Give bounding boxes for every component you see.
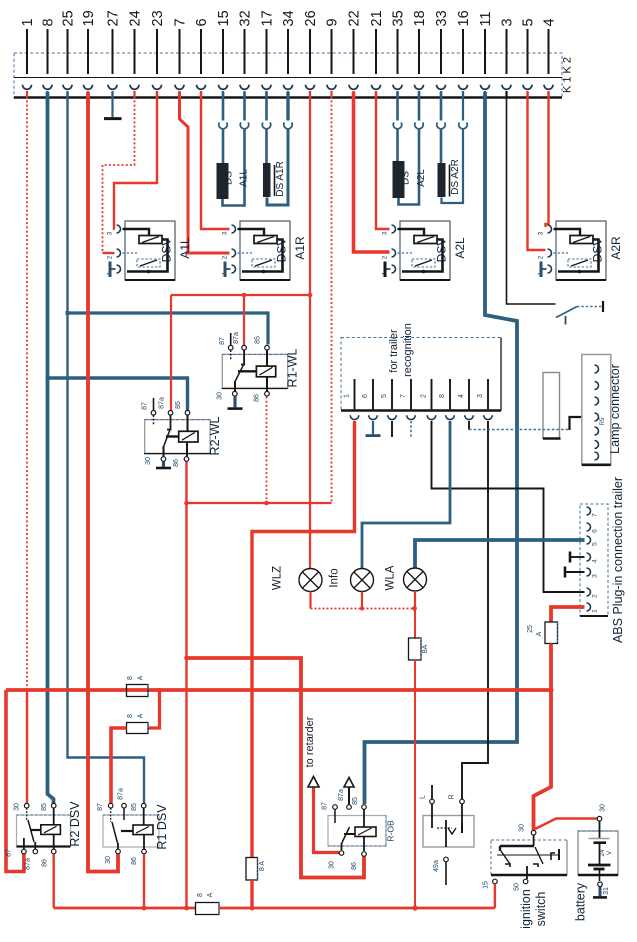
sensor DS A1R: [263, 161, 286, 197]
svg-text:WLZ: WLZ: [272, 566, 284, 590]
svg-text:8: 8: [439, 394, 446, 398]
svg-text:Info: Info: [329, 568, 341, 587]
svg-text:L: L: [420, 795, 427, 799]
wire pin32 loop to sensor DS A1L return: [223, 92, 249, 206]
strip socket pin 3: [502, 85, 511, 99]
svg-text:5: 5: [592, 542, 599, 546]
svg-text:32: 32: [238, 10, 254, 26]
svg-text:85: 85: [352, 797, 359, 805]
wire pin1 to relay R2 DSV pin30 (dotted then solid): [26, 92, 28, 690]
strip socket pin 21: [372, 85, 381, 99]
svg-text:85: 85: [131, 803, 138, 811]
svg-text:K 1 K 2: K 1 K 2: [562, 57, 574, 93]
svg-text:battery: battery: [574, 882, 588, 921]
svg-text:8A: 8A: [422, 644, 429, 653]
stub ABS pin3 terminator: [565, 567, 585, 578]
svg-text:5: 5: [381, 394, 388, 398]
svg-text:2: 2: [382, 255, 389, 259]
fuse 25A: [527, 622, 558, 644]
svg-text:3: 3: [500, 18, 516, 26]
svg-text:33: 33: [434, 10, 450, 26]
lamp WLZ: [272, 566, 323, 592]
strip socket pin 33: [437, 85, 446, 99]
wire to R1-WL pin87a: [243, 295, 245, 345]
wire pin15 to sensor DS A1L: [219, 92, 227, 163]
strip socket pin 27: [108, 85, 117, 99]
relay R-OB: [322, 789, 396, 870]
strip socket pin 22: [349, 85, 358, 99]
wire branch pin8 line to R2-WL pin85: [48, 378, 188, 411]
svg-text:25: 25: [61, 10, 77, 26]
solenoid valve block DSV A2L: [382, 221, 451, 280]
svg-text:A1L: A1L: [178, 237, 192, 259]
wire pin19 to relay R1 DSV pin30 (thick red): [88, 92, 118, 872]
svg-text:R2-WL: R2-WL: [208, 417, 222, 456]
svg-text:R1-WL: R1-WL: [286, 349, 300, 388]
fuse 8A R1 DSV branch: [127, 713, 149, 733]
wire trailer pin4 to resistor (dashed): [468, 421, 470, 430]
svg-text:A: A: [536, 631, 543, 636]
svg-text:3: 3: [477, 394, 484, 398]
wire bus left end to R2 DSV pin87: [6, 690, 24, 872]
strip socket pin 32: [240, 85, 249, 99]
svg-text:3: 3: [107, 231, 114, 235]
ground battery pin31: [593, 887, 607, 897]
svg-text:7: 7: [592, 513, 599, 517]
svg-text:87a: 87a: [159, 397, 166, 409]
relay R2 DSV: [6, 801, 83, 870]
svg-text:4: 4: [458, 394, 465, 398]
svg-text:85: 85: [255, 336, 262, 344]
svg-text:27: 27: [106, 10, 122, 26]
svg-text:86: 86: [173, 459, 180, 467]
svg-text:86: 86: [42, 859, 49, 867]
wire R1-WL pin86 (dotted): [266, 397, 268, 504]
svg-text:16: 16: [456, 10, 472, 26]
wire pin35 to sensor DS A2L: [393, 92, 401, 161]
wire net 87a horizontal: [171, 294, 310, 296]
svg-text:DS A1R: DS A1R: [275, 161, 286, 197]
wire trailer pin3 to flasher R terminal: [462, 421, 488, 799]
svg-text:ABS Plug-in connection trailer: ABS Plug-in connection trailer: [611, 477, 625, 643]
wire R2-WL pin86 down to bottom bus: [185, 462, 187, 909]
strip pin 18 lead: [412, 10, 428, 74]
svg-text:34: 34: [281, 10, 297, 26]
svg-text:85: 85: [41, 803, 48, 811]
connector strip K1 K2: [14, 53, 562, 98]
wire pin18 loop to sensor DS A2L return: [399, 92, 424, 205]
stop light switch with ground: [556, 301, 603, 325]
connector ABS plug-in connection trailer: [580, 477, 625, 643]
wire ignition pin15 to bottom bus: [494, 884, 496, 908]
svg-text:8: 8: [197, 893, 204, 897]
svg-text:3: 3: [222, 231, 229, 235]
svg-text:A: A: [207, 892, 214, 897]
wire R2 DSV pin86 to bottom bus: [53, 854, 55, 908]
strip socket pin 15: [219, 85, 228, 99]
svg-text:87a: 87a: [118, 788, 125, 800]
wire to R2-WL pin87a: [170, 295, 172, 411]
svg-text:1: 1: [592, 609, 599, 613]
connector block for trailer recognition: [341, 323, 501, 420]
svg-text:15: 15: [216, 10, 232, 26]
stub ABS pin4 terminator: [570, 552, 585, 563]
wire pin6 to DSV A1R socket3: [201, 92, 230, 229]
wire pin4 to DSV A2R socket3: [546, 92, 549, 227]
wire pin25 to relay R1 DSV pin85: [68, 92, 145, 804]
strip socket pin 25: [63, 85, 72, 99]
wire pin22 to DSV A2L socket2 (thick): [354, 92, 390, 252]
strip socket pin 5: [523, 85, 532, 99]
strip socket pin 34: [284, 85, 293, 99]
svg-text:15: 15: [483, 881, 490, 889]
ground R1-WL pin30: [228, 396, 243, 409]
supply bus horizontal: [6, 688, 551, 692]
ground R2-WL pin30: [156, 462, 171, 469]
strip pin 33 lead: [434, 10, 450, 74]
wire supply down to ignition switch pin30 and battery: [534, 690, 552, 830]
svg-text:1: 1: [20, 18, 36, 26]
strip pin 22 lead: [347, 10, 363, 74]
sensor DS A1L: [217, 163, 250, 199]
strip pin 24 lead: [128, 10, 144, 74]
svg-text:87a: 87a: [25, 858, 32, 870]
svg-text:85: 85: [175, 401, 182, 409]
strip socket pin 9: [327, 85, 336, 99]
svg-text:8: 8: [41, 18, 57, 26]
strip pin 27 lead: [106, 10, 122, 74]
svg-text:ignition: ignition: [519, 889, 533, 929]
arrow to retarder: [304, 716, 319, 787]
svg-text:7: 7: [400, 394, 407, 398]
wire trailer pin4 to resistor (dashed): [469, 429, 570, 431]
stub trailer pin7 (dashed): [410, 421, 412, 438]
svg-text:2: 2: [107, 255, 114, 259]
strip pin 6 lead: [194, 18, 210, 74]
strip socket pin 24: [130, 85, 139, 99]
svg-text:23: 23: [150, 10, 166, 26]
relay R1-WL: [217, 332, 300, 402]
solenoid valve block DSV A1L: [107, 221, 176, 280]
wire branch pin25 line to R1-WL pin85: [68, 313, 269, 345]
svg-text:30: 30: [145, 457, 152, 465]
svg-text:DSV: DSV: [275, 238, 289, 263]
wire mid net y=658 to R-OB pin86: [187, 658, 365, 878]
arrow R-OB pin87a to retarder: [344, 778, 354, 805]
strip pin 1 lead: [20, 18, 36, 74]
svg-text:4: 4: [592, 559, 599, 563]
strip pin 5 lead: [521, 18, 537, 74]
svg-text:87: 87: [6, 849, 13, 857]
svg-text:87a: 87a: [233, 332, 240, 344]
svg-text:5: 5: [521, 18, 537, 26]
strip socket pin 4: [544, 85, 553, 99]
svg-text:to retarder: to retarder: [304, 716, 316, 767]
svg-text:A1R: A1R: [293, 236, 307, 260]
svg-text:DS: DS: [401, 171, 412, 185]
wire pin9 (dotted) down to WL relay net: [331, 92, 333, 503]
strip socket pin 7: [175, 85, 184, 99]
lamp connector: [582, 355, 622, 465]
svg-text:R5: R5: [600, 417, 606, 425]
wire pin33 to sensor DS A2R: [437, 92, 445, 163]
svg-text:DS: DS: [224, 171, 235, 185]
svg-text:Lamp connector: Lamp connector: [608, 364, 622, 454]
svg-text:9: 9: [325, 18, 341, 26]
strip socket pin 1: [23, 85, 32, 99]
strip pin 25 lead: [61, 10, 77, 74]
sensor DS A2L: [393, 161, 428, 198]
resistor block: [543, 373, 561, 439]
strip pin 7 lead: [173, 18, 189, 74]
svg-text:49a: 49a: [433, 860, 440, 872]
svg-text:86: 86: [131, 857, 138, 865]
svg-text:DSV: DSV: [160, 238, 174, 263]
battery: [574, 804, 619, 921]
svg-text:86: 86: [254, 394, 261, 402]
wire trailer pin1 supply to lamps and bus: [252, 421, 355, 858]
svg-text:19: 19: [81, 10, 97, 26]
svg-text:8: 8: [127, 676, 134, 680]
strip pin 34 lead: [281, 10, 297, 74]
wire R1 DSV pin86 to bottom bus: [143, 854, 145, 908]
svg-text:30: 30: [329, 861, 336, 869]
wire pin3 to stop-light switch: [507, 92, 556, 304]
svg-text:A: A: [138, 713, 145, 718]
svg-text:2: 2: [538, 255, 545, 259]
lamp WLA: [385, 565, 427, 591]
wire ABS pin5 to lamp WLA (thick blue): [415, 540, 585, 568]
svg-text:3: 3: [382, 231, 389, 235]
svg-text:2: 2: [222, 255, 229, 259]
strip pin 23 lead: [150, 10, 166, 74]
strip pin 15 lead: [216, 10, 232, 74]
svg-text:24: 24: [128, 10, 144, 26]
svg-text:18: 18: [412, 10, 428, 26]
svg-text:DSV: DSV: [435, 238, 449, 263]
svg-text:R2 DSV: R2 DSV: [68, 801, 82, 847]
svg-text:30: 30: [600, 804, 607, 812]
wire pin16 loop to sensor DS A2R return: [442, 92, 468, 203]
svg-text:3: 3: [592, 574, 599, 578]
wire to-retarder arrow to R-OB pin30: [314, 786, 340, 853]
lamp Info: [329, 568, 374, 591]
svg-text:8: 8: [127, 714, 134, 718]
svg-text:31: 31: [603, 887, 610, 895]
strip pin 32 lead: [238, 10, 254, 74]
strip pin 3 lead: [500, 18, 516, 74]
svg-text:A2L: A2L: [416, 169, 427, 187]
svg-text:A2L: A2L: [453, 237, 467, 259]
flasher unit L R: [420, 785, 475, 885]
wire lamp bottoms to fuse 8A: [309, 592, 311, 609]
strip socket pin 23: [153, 85, 162, 99]
sensor DS A2R: [438, 159, 462, 197]
svg-text:87: 87: [219, 337, 226, 345]
svg-text:6: 6: [194, 18, 210, 26]
ground trailer pin6: [366, 421, 381, 436]
wire horizontal relay-86 net y=503: [187, 502, 332, 504]
svg-text:1: 1: [344, 394, 351, 398]
svg-text:17: 17: [260, 10, 276, 26]
ground pin27: [104, 92, 122, 119]
relay R2-WL: [142, 397, 223, 467]
svg-text:25: 25: [527, 625, 534, 633]
strip socket pin 26: [306, 85, 315, 99]
wire bus tap via fuse 8A to R1 DSV pin87: [148, 690, 160, 728]
bottom bus to ignition pin15: [54, 907, 196, 910]
strip socket pin 11: [481, 85, 490, 99]
strip pin 9 lead: [325, 18, 341, 74]
strip socket pin 17: [262, 85, 271, 99]
solenoid valve block DSV A2R: [538, 221, 607, 280]
strip pin 35 lead: [391, 10, 407, 74]
svg-text:4: 4: [542, 18, 558, 26]
strip socket pin 35: [393, 85, 402, 99]
svg-text:R: R: [449, 794, 456, 799]
strip pin 8 lead: [41, 18, 57, 74]
svg-text:6: 6: [362, 394, 369, 398]
svg-text:30: 30: [217, 392, 224, 400]
strip socket pin 19: [84, 85, 93, 99]
svg-text:2: 2: [421, 394, 428, 398]
fuse 8A on lamp supply branch: [246, 858, 266, 881]
svg-text:87: 87: [142, 402, 149, 410]
svg-text:2: 2: [592, 594, 599, 598]
svg-text:3: 3: [538, 231, 545, 235]
wire trailer pin2 to ABS plug pin2: [432, 421, 585, 592]
svg-text:11: 11: [478, 11, 494, 26]
svg-text:for trailer: for trailer: [388, 329, 400, 373]
strip socket pin 16: [459, 85, 468, 99]
svg-text:87: 87: [322, 802, 329, 810]
svg-text:switch: switch: [534, 892, 548, 927]
wire pin7 to DSV A1R socket2: [180, 92, 230, 253]
strip pin 19 lead: [81, 10, 97, 74]
svg-text:recognition: recognition: [402, 323, 414, 377]
svg-text:8 A: 8 A: [259, 861, 266, 871]
svg-text:35: 35: [391, 10, 407, 26]
svg-text:6: 6: [592, 529, 599, 533]
fuse 8A on supply bus: [127, 675, 149, 696]
wire pin17 to sensor DS A1R: [262, 92, 270, 163]
svg-text:A: A: [138, 675, 145, 680]
svg-text:24: 24: [599, 849, 606, 857]
wire pin24 to DSV A1L socket2 (dotted): [103, 92, 135, 253]
relay R1 DSV: [97, 788, 169, 865]
wire pin5 to DSV A2R socket2: [528, 92, 546, 250]
svg-text:30: 30: [14, 803, 21, 811]
wire trailer pin8 to lamp Info: [362, 421, 450, 568]
svg-text:30: 30: [105, 856, 112, 864]
svg-text:7: 7: [173, 18, 189, 26]
svg-text:26: 26: [303, 10, 319, 26]
wire pin21 to DSV A2L socket3: [376, 92, 390, 229]
wire resistor to lamp connector socket: [570, 417, 589, 430]
svg-text:R-OB: R-OB: [386, 820, 396, 842]
strip pin 21 lead: [369, 10, 385, 74]
svg-text:R1 DSV: R1 DSV: [155, 804, 169, 850]
svg-text:87: 87: [97, 803, 104, 811]
wire pin26 to lamp WLZ / horizontal to 87a pins: [309, 92, 311, 568]
svg-text:A2R: A2R: [609, 236, 623, 260]
svg-text:DSV: DSV: [591, 238, 605, 263]
svg-text:A1L: A1L: [239, 169, 250, 187]
svg-text:21: 21: [369, 10, 385, 26]
svg-text:DS A2R: DS A2R: [450, 159, 461, 195]
svg-text:22: 22: [347, 10, 363, 26]
svg-text:WLA: WLA: [385, 565, 397, 590]
strip pin 16 lead: [456, 10, 472, 74]
strip pin 17 lead: [260, 10, 276, 74]
wire pin23 to DSV A1L socket3: [114, 92, 157, 229]
strip socket pin 8: [43, 85, 52, 99]
svg-text:V: V: [606, 850, 613, 855]
strip pin 11 lead: [478, 11, 494, 74]
wire pin11 (thick blue) to R-OB pin85: [365, 92, 518, 804]
strip pin 26 lead: [303, 10, 319, 74]
wire ABS pin1 via fuse 25A to supply bus: [551, 607, 585, 622]
fuse 8A bottom bus: [196, 892, 220, 914]
svg-text:87a: 87a: [338, 789, 345, 801]
strip socket pin 18: [415, 85, 424, 99]
svg-text:30: 30: [519, 824, 526, 832]
ignition switch: [483, 824, 568, 929]
svg-text:86: 86: [351, 862, 358, 870]
strip pin 4 lead: [542, 18, 558, 74]
solenoid valve block DSV A1R: [222, 221, 291, 280]
wire pin8 to relay R2 DSV pin85 (thick blue): [48, 92, 54, 804]
fuse 8A lamp circuit: [409, 638, 430, 660]
strip socket pin 6: [197, 85, 206, 99]
stub trailer pin5: [391, 421, 393, 437]
